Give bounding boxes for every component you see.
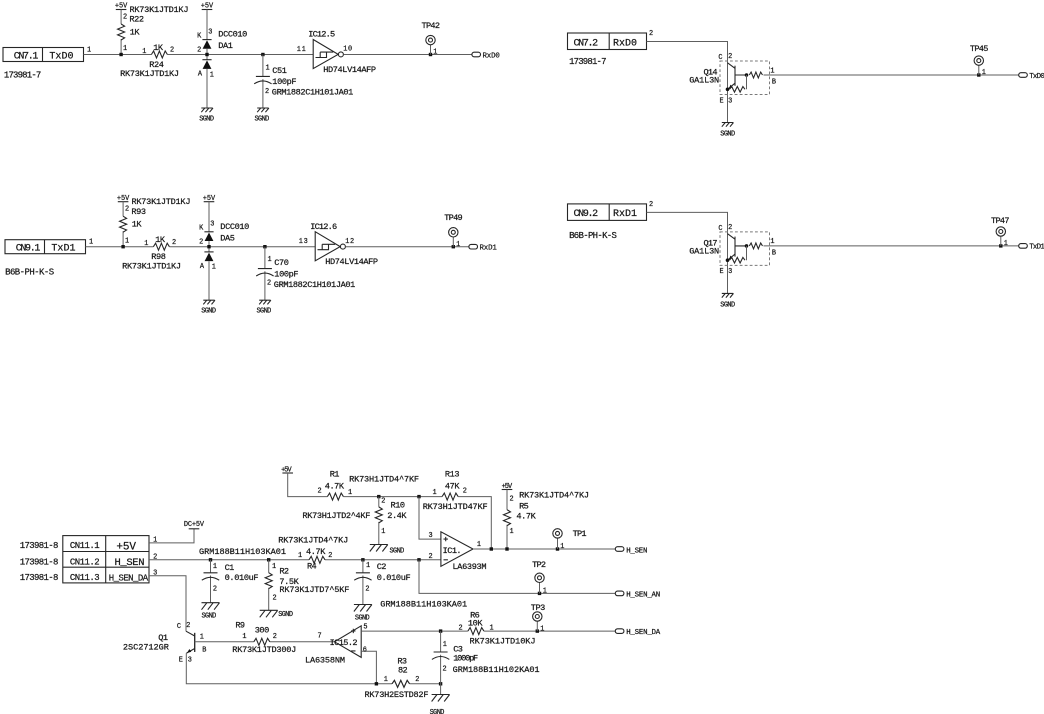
svg-text:4.7K: 4.7K [306,547,326,557]
svg-text:B: B [202,646,206,654]
svg-text:C51: C51 [272,66,287,76]
svg-text:+5V: +5V [117,195,130,203]
svg-text:DA1: DA1 [218,41,233,51]
svg-text:173981-8: 173981-8 [20,573,59,583]
svg-text:1: 1 [200,634,204,642]
svg-text:RK73K1JTD4^7KJ: RK73K1JTD4^7KJ [278,535,348,545]
svg-text:E: E [720,97,724,105]
svg-text:+5V: +5V [115,3,128,11]
svg-text:1: 1 [125,237,129,245]
svg-text:IC15.2: IC15.2 [330,638,358,648]
svg-text:82: 82 [398,666,408,676]
svg-text:DC+5V: DC+5V [184,521,205,529]
svg-text:RK73K1JTD1KJ: RK73K1JTD1KJ [130,5,189,15]
svg-text:SGND: SGND [278,611,293,619]
svg-text:RK73K1JTD1KJ: RK73K1JTD1KJ [132,197,191,207]
svg-text:1: 1 [348,489,352,497]
svg-text:H_SEN_AN: H_SEN_AN [626,591,660,599]
svg-text:RxD0: RxD0 [483,53,500,61]
svg-text:TP1: TP1 [573,529,587,539]
svg-text:1: 1 [210,71,214,79]
svg-text:GRM188B11H103KA01: GRM188B11H103KA01 [199,547,286,557]
svg-text:Q1: Q1 [158,633,168,643]
svg-text:RK73K1JTD4^7KJ: RK73K1JTD4^7KJ [519,490,589,500]
svg-text:CN9.1: CN9.1 [16,244,41,255]
svg-text:DCC010: DCC010 [220,222,249,232]
svg-text:4.7K: 4.7K [516,511,536,521]
svg-text:R1: R1 [330,469,340,479]
svg-text:2: 2 [197,46,201,54]
svg-text:1: 1 [144,240,148,248]
svg-text:C: C [177,623,181,631]
svg-text:LA6358NM: LA6358NM [305,655,345,665]
svg-text:1: 1 [770,67,774,75]
svg-text:1: 1 [298,552,302,560]
svg-text:R93: R93 [131,207,146,217]
svg-text:300: 300 [255,625,270,635]
svg-text:IC12.6: IC12.6 [310,222,337,232]
svg-text:173981-7: 173981-7 [4,71,41,81]
svg-text:2: 2 [328,552,332,560]
svg-text:2: 2 [649,201,653,209]
svg-text:RK73K1JTD300J: RK73K1JTD300J [232,645,296,655]
svg-text:173981-8: 173981-8 [20,557,59,567]
svg-text:1: 1 [443,641,447,649]
svg-text:1: 1 [153,537,157,545]
svg-text:1: 1 [266,64,270,72]
svg-text:+5V: +5V [502,483,513,491]
svg-text:2: 2 [463,487,467,495]
svg-text:7: 7 [318,633,322,641]
svg-text:+5V: +5V [116,541,136,553]
svg-text:C70: C70 [274,258,289,268]
svg-text:2: 2 [267,280,271,288]
svg-text:1: 1 [982,69,986,77]
svg-text:RxD0: RxD0 [613,38,637,49]
svg-text:C: C [718,225,722,233]
svg-text:2: 2 [381,498,385,506]
svg-text:H_SEN: H_SEN [626,547,647,555]
svg-text:2: 2 [443,665,447,673]
svg-text:173981-8: 173981-8 [20,541,59,551]
svg-text:1: 1 [381,528,385,536]
svg-text:E: E [720,268,724,276]
svg-text:1: 1 [433,489,437,497]
svg-text:1: 1 [366,562,370,570]
svg-text:DA5: DA5 [220,233,235,243]
svg-text:RK73H1JTD2^4KF: RK73H1JTD2^4KF [302,511,370,521]
svg-text:A: A [198,71,203,79]
svg-text:2: 2 [459,624,463,632]
svg-text:1: 1 [770,238,774,246]
svg-text:R22: R22 [129,15,144,25]
svg-text:2: 2 [123,13,127,21]
svg-text:1: 1 [272,563,276,571]
svg-text:1: 1 [477,541,481,549]
svg-text:B: B [772,79,776,87]
svg-text:2: 2 [172,239,176,247]
svg-text:11: 11 [297,46,306,54]
svg-text:B: B [772,250,776,258]
svg-text:+5V: +5V [281,467,292,475]
svg-text:RxD1: RxD1 [480,245,498,253]
svg-text:H_SEN: H_SEN [115,557,145,569]
svg-text:SGND: SGND [720,301,735,309]
svg-text:3: 3 [188,656,192,664]
svg-text:RxD1: RxD1 [613,209,637,220]
svg-text:2: 2 [429,553,433,561]
svg-text:RK73K1JTD10KJ: RK73K1JTD10KJ [470,637,536,647]
svg-text:H_SEN_DA: H_SEN_DA [109,574,149,584]
svg-text:2: 2 [273,594,277,602]
svg-text:+5V: +5V [201,3,214,11]
svg-text:2: 2 [510,496,514,504]
svg-text:1: 1 [213,563,217,571]
svg-text:RK73K1JTD7^5KF: RK73K1JTD7^5KF [279,585,349,595]
svg-text:3: 3 [728,97,732,105]
svg-text:1: 1 [142,48,146,56]
svg-text:SGND: SGND [390,547,405,555]
svg-text:3: 3 [153,570,157,578]
svg-text:C1: C1 [225,563,235,573]
svg-text:H_SEN_DA: H_SEN_DA [626,629,661,637]
svg-text:1K: 1K [153,43,164,53]
svg-text:3: 3 [429,532,433,540]
svg-text:RK73H1JTD4^7KF: RK73H1JTD4^7KF [349,475,419,485]
svg-text:6: 6 [363,646,367,654]
svg-text:0.010uF: 0.010uF [377,573,411,583]
svg-text:GRM1882C1H101JA01: GRM1882C1H101JA01 [274,280,356,290]
svg-text:1: 1 [384,676,388,684]
svg-text:LA6393M: LA6393M [453,562,487,572]
svg-text:CN7.1: CN7.1 [14,51,39,62]
svg-text:K: K [199,225,204,233]
svg-text:C: C [718,54,722,62]
svg-text:10: 10 [343,46,352,54]
svg-text:1K: 1K [130,27,141,37]
svg-text:1000pF: 1000pF [453,653,478,663]
svg-text:IC12.5: IC12.5 [308,30,335,40]
svg-text:1: 1 [87,47,91,55]
svg-text:SGND: SGND [355,614,370,622]
svg-text:TP3: TP3 [531,603,546,613]
svg-text:TxD0: TxD0 [1029,73,1044,81]
svg-text:SGND: SGND [255,116,270,124]
svg-text:2: 2 [186,622,190,630]
svg-text:2: 2 [170,47,174,55]
svg-text:1: 1 [1004,240,1008,248]
svg-text:2: 2 [365,585,369,593]
svg-text:R10: R10 [391,501,406,511]
svg-text:RK73K1JTD1KJ: RK73K1JTD1KJ [122,261,181,271]
svg-text:1: 1 [123,45,127,53]
svg-text:RK73K1JTD1KJ: RK73K1JTD1KJ [120,69,179,79]
svg-text:1: 1 [560,543,564,551]
svg-text:2: 2 [728,224,732,232]
svg-text:2: 2 [728,53,732,61]
svg-text:2: 2 [199,239,203,247]
svg-text:1: 1 [456,241,460,249]
svg-text:2: 2 [273,633,277,641]
svg-text:2: 2 [415,676,419,684]
svg-text:10K: 10K [468,618,483,628]
svg-text:R4: R4 [307,562,317,572]
svg-text:B6B-PH-K-S: B6B-PH-K-S [5,267,54,277]
svg-text:R9: R9 [235,621,245,631]
svg-text:RK73H2ESTD82F: RK73H2ESTD82F [365,690,429,700]
svg-text:GRM1882C1H101JA01: GRM1882C1H101JA01 [272,88,354,98]
svg-text:1: 1 [433,49,437,57]
svg-text:R2: R2 [279,566,289,576]
svg-text:2: 2 [153,554,157,562]
svg-text:2: 2 [213,586,217,594]
svg-text:SGND: SGND [257,308,272,316]
svg-text:SGND: SGND [202,612,217,620]
svg-text:GA1L3N: GA1L3N [689,247,719,257]
svg-text:2: 2 [649,30,653,38]
svg-text:1: 1 [89,239,93,247]
svg-text:K: K [197,32,202,40]
svg-text:1: 1 [242,633,246,641]
svg-text:2: 2 [318,487,322,495]
svg-text:1K: 1K [155,235,166,245]
svg-text:B6B-PH-K-S: B6B-PH-K-S [569,231,617,241]
svg-text:100pF: 100pF [274,269,298,279]
svg-text:SGND: SGND [720,131,735,139]
svg-text:1: 1 [510,528,514,536]
svg-text:0.010uF: 0.010uF [225,573,259,583]
svg-text:TP49: TP49 [444,213,463,223]
svg-text:3: 3 [210,221,214,229]
svg-text:2: 2 [125,206,129,214]
svg-text:1: 1 [543,587,547,595]
svg-text:2.4K: 2.4K [387,511,407,521]
svg-text:SGND: SGND [199,116,214,124]
svg-text:HD74LV14AFP: HD74LV14AFP [323,65,376,75]
svg-text:1: 1 [540,625,544,633]
svg-text:R5: R5 [519,501,529,511]
svg-text:R13: R13 [445,469,460,479]
svg-text:IC1.: IC1. [443,546,462,556]
svg-text:+5V: +5V [203,195,216,203]
svg-text:173981-7: 173981-7 [569,57,606,67]
svg-text:TxD1: TxD1 [1029,244,1044,252]
svg-text:TP42: TP42 [422,21,441,31]
svg-text:1: 1 [268,256,272,264]
svg-text:CN11.2: CN11.2 [70,557,100,567]
svg-text:CN11.1: CN11.1 [70,541,100,551]
svg-text:4.7K: 4.7K [325,482,345,492]
svg-text:13: 13 [299,238,308,246]
svg-text:TxD0: TxD0 [49,52,73,63]
svg-text:2SC2712GR: 2SC2712GR [123,642,169,652]
svg-text:TP2: TP2 [532,560,546,570]
svg-text:47K: 47K [445,482,460,492]
svg-text:5: 5 [363,623,367,631]
svg-text:1: 1 [212,264,216,272]
svg-text:DCC010: DCC010 [218,30,247,40]
svg-text:A: A [200,263,205,271]
svg-text:C2: C2 [377,562,387,572]
svg-text:CN9.2: CN9.2 [574,209,599,220]
svg-text:TP47: TP47 [991,216,1010,226]
svg-text:GA1L3N: GA1L3N [689,76,719,86]
svg-text:TxD1: TxD1 [51,244,75,255]
svg-text:HD74LV14AFP: HD74LV14AFP [325,257,378,267]
svg-text:SGND: SGND [201,308,216,316]
svg-text:1: 1 [490,624,494,632]
svg-text:RK73H1JTD47KF: RK73H1JTD47KF [423,502,488,512]
svg-text:TP45: TP45 [970,44,989,54]
svg-text:GRM188B11H102KA01: GRM188B11H102KA01 [453,665,540,675]
svg-text:E: E [179,656,183,664]
svg-text:12: 12 [345,238,354,246]
svg-text:SGND: SGND [430,709,445,714]
svg-text:1K: 1K [132,220,143,230]
svg-text:GRM188B11H103KA01: GRM188B11H103KA01 [380,599,467,609]
svg-text:3: 3 [208,28,212,36]
svg-text:100pF: 100pF [272,77,296,87]
svg-text:3: 3 [728,268,732,276]
svg-text:CN7.2: CN7.2 [574,38,599,49]
svg-text:CN11.3: CN11.3 [70,573,100,583]
svg-text:2: 2 [265,88,269,96]
